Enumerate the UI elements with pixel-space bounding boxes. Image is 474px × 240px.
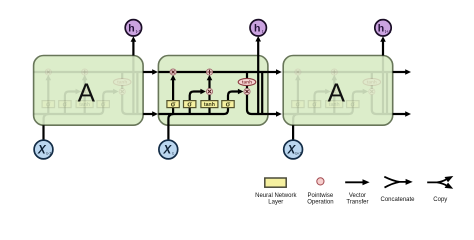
svg-text:t+1: t+1 [385, 29, 392, 34]
svg-text:Vector: Vector [349, 193, 366, 199]
svg-text:Pointwise: Pointwise [308, 193, 334, 199]
ghost internals left cell [34, 36, 144, 141]
svg-text:t+1: t+1 [295, 151, 302, 156]
ghost internals right cell [283, 36, 393, 141]
node X t-1 [34, 140, 53, 159]
middle cell internals [158, 36, 268, 141]
svg-text:h: h [254, 23, 260, 35]
legend pointwise circle [317, 178, 324, 185]
wire h t+1 stub [382, 41, 384, 56]
svg-text:Operation: Operation [307, 199, 333, 205]
wire x t-1 stub [42, 125, 44, 140]
svg-text:t-1: t-1 [46, 151, 52, 156]
node X t+1 [284, 140, 303, 159]
wire C arrow out right [393, 71, 406, 73]
svg-text:Copy: Copy [433, 197, 447, 203]
wire x t+1 stub [292, 125, 294, 140]
wire C arrow cell2 to cell3 [268, 71, 277, 73]
legend neural network layer box [265, 178, 286, 187]
svg-text:A: A [328, 78, 346, 108]
svg-text:t-1: t-1 [136, 29, 142, 34]
svg-text:Concatenate: Concatenate [380, 197, 415, 203]
legend concatenate symbol [384, 177, 406, 188]
svg-text:Layer: Layer [268, 199, 283, 205]
svg-text:Neural Network: Neural Network [255, 193, 297, 199]
legend vector transfer arrow [345, 181, 363, 183]
legend copy symbol [427, 179, 447, 186]
svg-text:Transfer: Transfer [346, 199, 368, 205]
wire h arrow cell1 to cell2 [143, 113, 153, 115]
cell A t+1 [283, 56, 393, 126]
wire h t-1 stub [132, 41, 134, 56]
node h t+1 [375, 20, 391, 36]
svg-text:X: X [162, 145, 172, 157]
wire h arrow cell2 to cell3 [268, 113, 277, 115]
svg-text:h: h [128, 23, 134, 35]
cell A t-1 [34, 56, 144, 126]
wire C arrow cell1 to cell2 [143, 71, 153, 73]
wire h arrow out right [393, 113, 406, 115]
node h t [250, 20, 266, 36]
node h t-1 [125, 20, 141, 36]
cell A t (middle) [158, 56, 268, 126]
svg-text:A: A [78, 78, 96, 108]
node X t [159, 140, 178, 159]
svg-text:h: h [378, 23, 384, 35]
